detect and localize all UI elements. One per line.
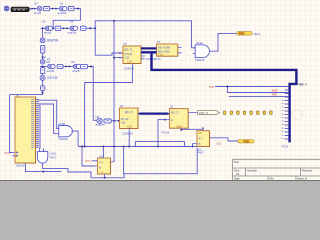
wire U2 E to U11 (158, 120, 165, 147)
wire U10 feeds (103, 147, 114, 162)
wire U5 pin2 branch (114, 57, 123, 59)
driver U10 (85, 154, 113, 177)
resistor pack RP1 (224, 111, 273, 114)
svg-text:PCA.B: PCA.B (162, 131, 170, 135)
svg-text:B: B (99, 165, 101, 169)
wire gate1 to R1 (212, 33, 237, 51)
wire outer loop (124, 147, 198, 174)
svg-text:B: B (199, 142, 201, 146)
svg-text:74HC: 74HC (197, 151, 204, 155)
svg-text:amp5: amp5 (44, 31, 52, 35)
filter box F4 (80, 26, 86, 30)
svg-text:U6: U6 (71, 60, 75, 64)
svg-text:74HC08: 74HC08 (58, 137, 68, 141)
and gate U13A (193, 41, 212, 62)
wire to CPU top (10, 90, 43, 97)
svg-text:U4: U4 (34, 2, 38, 6)
resistor R2 (238, 140, 254, 143)
wire U3 clr (128, 131, 130, 146)
wire left rail (10, 95, 13, 153)
title texts (234, 160, 313, 180)
and gate U13C vertical (37, 148, 56, 166)
wire (42, 28, 44, 38)
wire (42, 74, 44, 76)
pin stubs U5 (141, 56, 145, 59)
svg-text:TXD: TXD (209, 85, 214, 89)
antenna icon A1 (4, 6, 9, 11)
filter box F3 (55, 26, 61, 30)
wire mcu gnd (26, 167, 62, 172)
svg-text:89C52: 89C52 (16, 163, 25, 167)
svg-text:SN74CBT16: SN74CBT16 (146, 57, 161, 61)
oscillator G3 (40, 75, 45, 80)
resistor R1 (237, 32, 252, 36)
svg-text:Number: Number (247, 168, 257, 172)
wire P01 to gate (39, 104, 56, 134)
filter box F5 (57, 64, 63, 68)
svg-text:485R: 485R (272, 88, 278, 92)
svg-text:U9: U9 (70, 20, 74, 24)
wire U2 gnd to U11 (181, 128, 203, 130)
capacitor box C1 (41, 45, 45, 53)
svg-text:P[0..7]: P[0..7] (171, 110, 179, 114)
pin XTAL left pins (12, 152, 17, 157)
pin bottom (25, 163, 27, 167)
svg-text:VCC: VCC (4, 151, 10, 155)
wire P00 to gate (39, 100, 59, 128)
bus U3 to U2 (140, 112, 167, 114)
svg-text:CP Q0: CP Q0 (121, 117, 129, 121)
svg-text:File: File (269, 176, 274, 180)
wire RXD (228, 87, 289, 93)
svg-text:U2: U2 (170, 105, 174, 109)
svg-text:NE12: NE12 (254, 32, 261, 36)
svg-text:C971W: C971W (47, 76, 59, 80)
junctions (84, 146, 86, 148)
counter U7 (146, 40, 182, 61)
filter box F1 (44, 7, 50, 11)
svg-text:Size: Size (234, 168, 240, 172)
mixer U4 (37, 6, 42, 11)
svg-text:U13A: U13A (196, 41, 203, 45)
svg-text:amp5a: amp5a (67, 31, 76, 35)
svg-text:U2: U2 (42, 20, 46, 24)
filter box F6 (81, 64, 88, 68)
wire P05 to nand (39, 106, 40, 149)
svg-text:amp5a: amp5a (58, 11, 67, 15)
svg-text:CLK: CLK (158, 53, 163, 57)
svg-text:Date: Date (234, 176, 240, 180)
wire U10 B in (82, 147, 95, 167)
pin dots (31, 8, 33, 10)
pin stubs U3 (129, 114, 140, 132)
wire row2 out (86, 21, 195, 48)
capacitor box C2 (41, 68, 45, 74)
svg-text:CLR: CLR (127, 125, 132, 129)
svg-text:Sheet of: Sheet of (297, 176, 307, 180)
mixer U8 (48, 64, 55, 68)
svg-text:CD4046: CD4046 (124, 66, 135, 70)
wire to U5 (95, 28, 123, 55)
capacitor box C3 (41, 86, 45, 91)
svg-text:I Q1: I Q1 (121, 120, 126, 124)
wire TXD (215, 86, 288, 88)
wire U10 bottom (91, 174, 124, 178)
oscillator G2 (40, 59, 45, 64)
wire (42, 80, 44, 85)
svg-text:amp5: amp5 (34, 11, 42, 15)
title block frame (232, 159, 320, 180)
pin stubs U11 (193, 128, 214, 144)
mixer U10a (70, 26, 77, 30)
wire gate3 out (43, 166, 91, 178)
mixer U9 (97, 118, 102, 123)
wire (40, 66, 47, 68)
svg-text:485T: 485T (272, 93, 278, 97)
svg-text:A[0..4] W0: A[0..4] W0 (158, 46, 171, 50)
svg-text:amp5: amp5 (47, 69, 55, 73)
app background strip (0, 181, 320, 185)
filter box F7 (104, 119, 111, 123)
bus U5 down right (141, 52, 296, 142)
gear watermark (292, 110, 302, 120)
mixer U2 (45, 26, 52, 30)
svg-text:amp5b: amp5b (96, 123, 105, 127)
svg-text:U13B: U13B (58, 122, 65, 126)
bus U5 to U7 (141, 47, 157, 49)
svg-text:Revision: Revision (302, 168, 313, 172)
and gate U13B (56, 122, 74, 141)
svg-text:GND: GND (176, 124, 182, 128)
svg-text:U5: U5 (123, 42, 127, 46)
mixer U6 (73, 64, 80, 68)
svg-text:U13C: U13C (49, 152, 56, 156)
svg-text:74HC: 74HC (49, 155, 56, 159)
wire to divider (87, 67, 97, 121)
wire (50, 8, 60, 10)
entry pin numbers (282, 97, 284, 139)
svg-text:amp5: amp5 (72, 69, 80, 73)
svg-text:A4: A4 (236, 172, 240, 176)
svg-text:32MTW: 32MTW (47, 38, 59, 42)
svg-text:Title: Title (234, 160, 239, 164)
svg-text:74HC08: 74HC08 (195, 58, 205, 62)
junction (77, 8, 79, 10)
wire (42, 53, 44, 59)
PLL U5 (123, 42, 145, 70)
svg-text:E: E (171, 118, 173, 122)
driver U11 (181, 127, 254, 155)
wire bus branch down (113, 21, 115, 147)
svg-text:-202: -202 (216, 142, 222, 146)
oscillator G1 (40, 38, 45, 43)
svg-text:CLR: CLR (127, 59, 132, 63)
wire U5 bottom loop (85, 64, 133, 147)
wire row1 feedback (53, 9, 80, 29)
svg-text:CD4040: CD4040 (122, 131, 133, 135)
wire (63, 66, 73, 68)
filter box F2 (68, 7, 74, 11)
svg-text:U3: U3 (120, 104, 124, 108)
latch U2 (162, 105, 198, 135)
svg-text:U1: U1 (60, 2, 64, 6)
mixer U1 (59, 6, 66, 10)
svg-text:U8: U8 (46, 60, 50, 64)
pin stubs U7 (178, 48, 182, 53)
svg-text:472: 472 (239, 32, 244, 36)
pin stubs U10 (92, 161, 113, 178)
svg-text:A Y: A Y (99, 160, 103, 164)
sheet background (0, 0, 320, 181)
pin stubs U2 (165, 113, 198, 131)
wire to U3 (111, 120, 119, 122)
svg-text:Q[0..7]: Q[0..7] (125, 110, 133, 114)
svg-text:1A: 1A (199, 131, 202, 135)
svg-text:U7: U7 (157, 40, 161, 44)
wire U11 to R2 (213, 138, 238, 141)
svg-text:CP Q0: CP Q0 (124, 52, 132, 56)
wire gate2 out (74, 131, 78, 146)
port P0[0..7] (198, 111, 220, 115)
svg-text:G: G (101, 170, 103, 174)
counter U3 (120, 104, 141, 135)
svg-text:VCC: VCC (85, 159, 91, 163)
MCU U12 89C52 (4, 97, 39, 167)
wire row2 start (41, 27, 45, 29)
svg-text:P0[0..7]: P0[0..7] (199, 111, 208, 115)
svg-text:Q[0..7]: Q[0..7] (124, 48, 132, 52)
wire main rail (78, 146, 197, 148)
bus entries (285, 87, 289, 140)
wire 485 (229, 95, 289, 97)
svg-text:P1.B: P1.B (282, 145, 288, 149)
crystal filter X1 (black component) (11, 7, 30, 12)
svg-text:I Q1: I Q1 (124, 55, 129, 59)
wire (30, 8, 37, 10)
wire inner loop (135, 141, 184, 146)
wire (61, 27, 70, 29)
svg-text:472: 472 (244, 139, 249, 143)
svg-text:A Y: A Y (199, 136, 203, 140)
sheet bottom edge (0, 180, 320, 181)
svg-text:D[0..7]: D[0..7] (299, 83, 307, 87)
